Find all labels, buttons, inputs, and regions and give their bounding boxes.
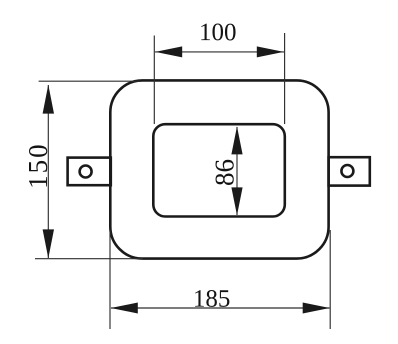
extension line right of dim 100	[284, 33, 286, 124]
right tab hole	[341, 165, 353, 177]
svg-text:86: 86	[209, 159, 239, 186]
arrowhead top of dim 86	[231, 126, 242, 154]
arrowhead bottom of dim 150	[43, 229, 54, 258]
svg-text:100: 100	[199, 19, 237, 46]
arrowhead right of dim 185	[303, 303, 330, 314]
extension line left of dim 100	[153, 36, 155, 125]
arrowhead bottom of dim 86	[231, 187, 242, 215]
svg-text:185: 185	[193, 286, 231, 313]
dimension line 100	[155, 51, 284, 53]
arrowhead left of dim 185	[111, 303, 138, 314]
right tab	[329, 157, 370, 185]
extension line bottom of dim 150	[35, 258, 143, 260]
left tab hole	[80, 166, 92, 178]
arrowhead top of dim 150	[43, 85, 54, 114]
extension line right of dim 185	[329, 230, 331, 329]
extension line top of dim 150	[39, 80, 140, 82]
left tab	[68, 158, 111, 186]
extension line left of dim 185	[109, 230, 111, 329]
svg-text:150: 150	[23, 142, 53, 189]
inner cutout (rounded window)	[153, 124, 284, 216]
dimension line 150	[47, 85, 49, 258]
dimension line 185	[111, 307, 330, 309]
dimension line 86	[236, 127, 238, 215]
arrowhead right of dim 100	[257, 46, 284, 57]
body outline (outer rounded plate)	[110, 80, 328, 258]
arrowhead left of dim 100	[155, 46, 182, 57]
